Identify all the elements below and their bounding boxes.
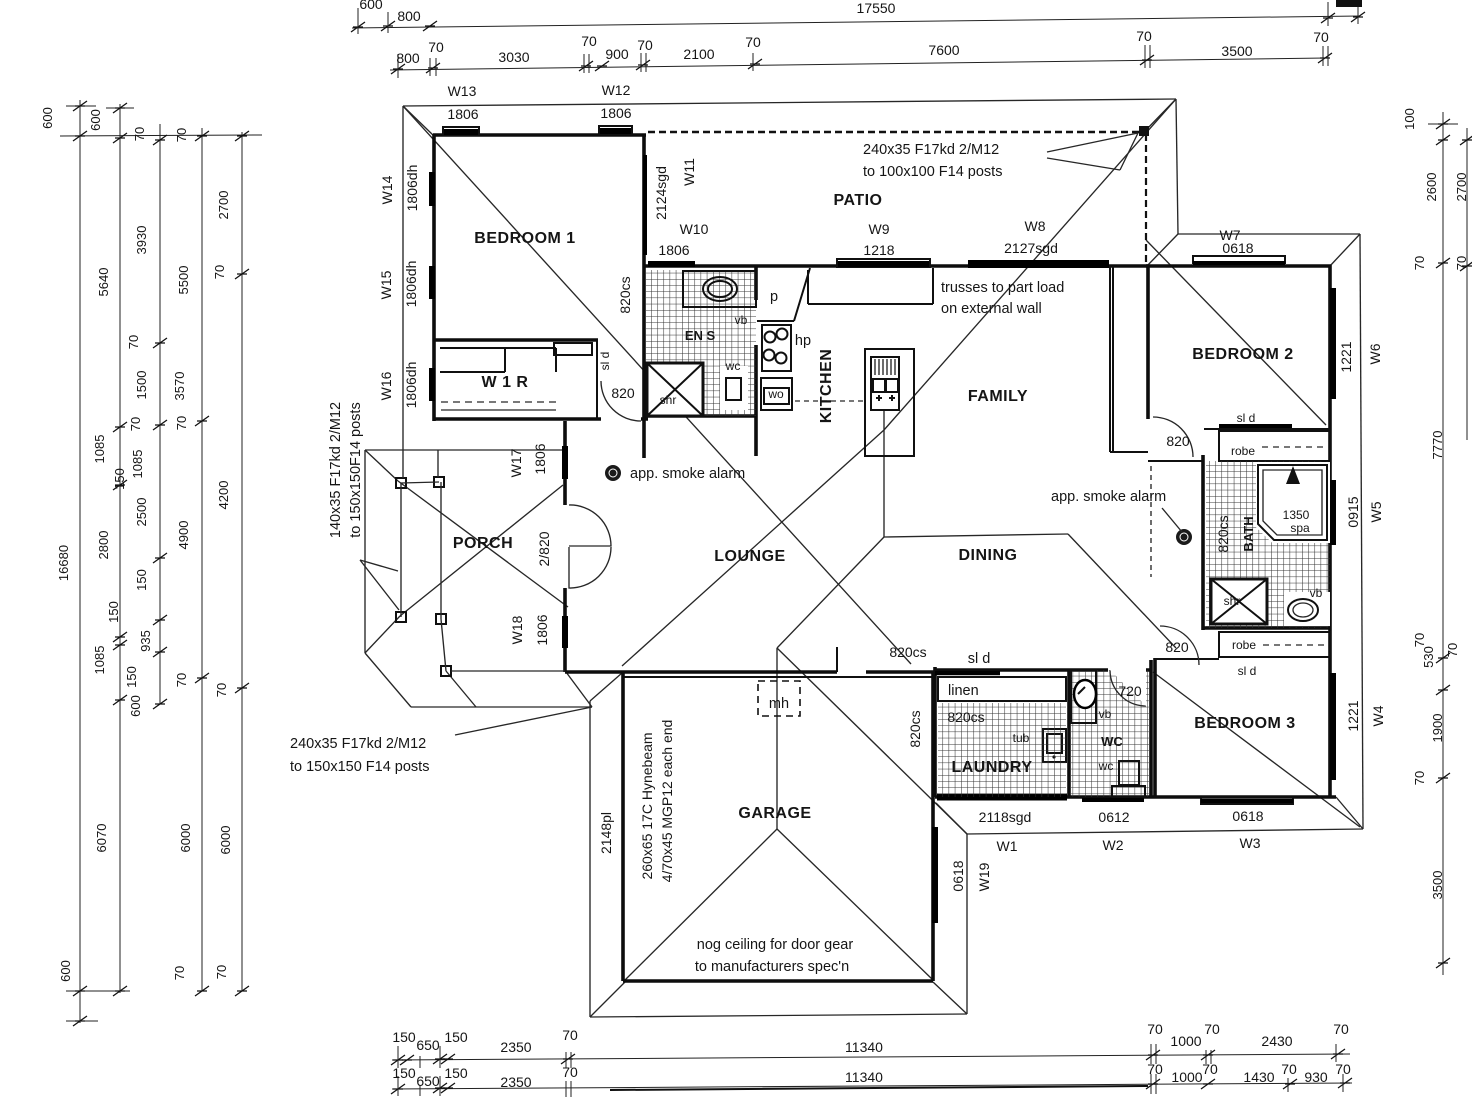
svg-text:on external wall: on external wall [941,301,1042,317]
svg-text:70: 70 [1147,1021,1163,1037]
svg-text:16680: 16680 [56,545,71,581]
wall W1R bottom / hall top [434,417,648,421]
wall W1R east with cavity slider [596,340,598,419]
eave porch bottom [411,706,592,708]
svg-text:70: 70 [1412,633,1427,647]
wall wing east [1328,265,1332,797]
porch slab edges [401,450,565,671]
svg-text:0915: 0915 [1345,496,1361,527]
svg-text:PORCH: PORCH [453,535,513,552]
svg-text:EN S: EN S [685,328,716,343]
garage hip left [625,829,777,980]
window W3 [1201,797,1293,804]
hip NW corner [403,106,434,136]
svg-text:70: 70 [1281,1061,1297,1077]
bath tiled floor [1206,461,1330,628]
svg-text:3500: 3500 [1221,43,1252,59]
svg-text:LAUNDRY: LAUNDRY [951,759,1032,776]
svg-text:1806dh: 1806dh [403,261,419,308]
svg-text:6000: 6000 [178,824,193,853]
hip SE corner of wing [1336,797,1363,829]
kitchen hotplate unit [762,325,791,371]
wall bath south [1203,626,1330,630]
window W7 [1193,256,1285,263]
wall house west (bedroom1+W1R) [432,134,436,421]
svg-text:2500: 2500 [134,498,149,527]
window W2 [1082,798,1144,802]
svg-text:vb: vb [735,313,748,327]
svg-text:260x65 17C Hynebeam: 260x65 17C Hynebeam [639,732,655,879]
svg-text:BEDROOM 2: BEDROOM 2 [1192,346,1293,363]
svg-text:FAMILY: FAMILY [968,388,1028,405]
svg-text:6000: 6000 [218,826,233,855]
svg-text:0612: 0612 [1098,809,1129,825]
dim line 17550 overall top [352,16,1360,28]
svg-text:70: 70 [174,128,189,142]
wall bath west [1201,455,1205,630]
bath spa triangle marker [1286,466,1300,484]
svg-text:sl d: sl d [968,651,991,667]
svg-text:trusses to part load: trusses to part load [941,280,1064,296]
laundry tub [1043,729,1066,762]
svg-text:600: 600 [359,0,383,12]
svg-text:1806: 1806 [658,242,689,258]
ensuite wc [720,366,748,410]
svg-text:150: 150 [444,1065,468,1081]
svg-text:W2: W2 [1103,837,1124,853]
svg-text:app. smoke alarm: app. smoke alarm [1051,489,1166,505]
svg-text:935: 935 [138,630,153,652]
svg-text:W4: W4 [1370,705,1386,726]
porch eave inner corner [446,671,476,707]
svg-text:6070: 6070 [94,824,109,853]
svg-text:0618: 0618 [1232,808,1263,824]
wall lounge west with door opening [563,421,567,672]
svg-text:70: 70 [214,683,229,697]
wall bedroom1 top [433,133,646,137]
left chain D 70/5500/70/4900/70/6000/70 [201,128,203,991]
wall bedroom3 north stub [1155,658,1219,660]
svg-text:3500: 3500 [1430,871,1445,900]
svg-text:5640: 5640 [96,268,111,297]
wall bedroom2 north [1146,264,1331,268]
svg-text:1218: 1218 [863,242,894,258]
svg-text:70: 70 [214,965,229,979]
wall wc east [1149,660,1153,797]
window W16 [429,368,435,401]
svg-text:70: 70 [174,673,189,687]
door bedroom2 arc [1153,417,1193,457]
wall stub left of 820cs opening [836,647,838,672]
svg-text:70: 70 [132,127,147,141]
svg-text:70: 70 [1445,643,1460,657]
svg-text:hp: hp [795,333,811,349]
svg-text:140x35 F17kd 2/M12: 140x35 F17kd 2/M12 [328,402,344,538]
svg-text:3930: 3930 [134,226,149,255]
svg-text:1221: 1221 [1338,341,1354,372]
svg-text:5500: 5500 [176,266,191,295]
svg-text:1085: 1085 [92,435,107,464]
smoke alarm lounge [605,465,621,481]
svg-text:1806: 1806 [447,106,478,122]
svg-text:150: 150 [444,1029,468,1045]
svg-text:70: 70 [745,34,761,50]
roof ridge vertical at island [883,409,885,537]
svg-text:BEDROOM 1: BEDROOM 1 [474,230,575,247]
hall dashed line below bedroom2 door [1150,466,1152,577]
left chain C 70/3930/70/1500/70/2500/150/935/150/600 [159,124,161,704]
svg-text:70: 70 [1313,29,1329,45]
eave NE patio right edge [1176,99,1178,234]
svg-text:tub: tub [1013,731,1030,745]
svg-text:4900: 4900 [176,521,191,550]
svg-text:70: 70 [212,265,227,279]
svg-text:to 150x150F14 posts: to 150x150F14 posts [348,402,364,537]
svg-text:1806dh: 1806dh [404,165,420,212]
hip garage NW corner [590,673,622,701]
kitchen pantry diagonal and shelf [757,268,810,321]
svg-text:11340: 11340 [845,1039,883,1055]
porch posts [396,478,406,488]
garage note leader [455,707,592,735]
svg-text:3570: 3570 [172,372,187,401]
svg-text:1221: 1221 [1345,700,1361,731]
wc tiled floor [1071,670,1149,797]
svg-text:240x35 F17kd 2/M12: 240x35 F17kd 2/M12 [863,142,999,158]
wall bedroom2 door sill [1148,460,1204,462]
sliding door bedroom2 robe [1204,428,1330,430]
svg-text:LOUNGE: LOUNGE [714,548,785,565]
window W10 [648,261,695,267]
svg-text:70: 70 [1147,1061,1163,1077]
svg-text:70: 70 [1204,1021,1220,1037]
svg-text:150: 150 [134,569,149,591]
wall bedroom3 west [1153,658,1157,797]
roof hip dining right [1068,534,1176,648]
svg-text:app. smoke alarm: app. smoke alarm [630,466,745,482]
W1R robe shelf lines [440,348,556,372]
svg-text:2800: 2800 [96,531,111,560]
robe hall box (bedroom3) [1219,632,1330,657]
svg-text:W13: W13 [448,83,477,99]
svg-text:650: 650 [416,1073,440,1089]
manhole dashed [758,681,800,716]
svg-text:2700: 2700 [216,191,231,220]
right chain 2 (clipped at page edge) 2700 [1466,128,1468,440]
svg-text:WC: WC [1101,734,1123,749]
svg-text:vb: vb [1310,586,1323,600]
svg-text:820: 820 [1165,639,1189,655]
eave top of right wing [1178,233,1360,235]
svg-text:W19: W19 [976,862,992,891]
svg-text:70: 70 [1202,1061,1218,1077]
svg-text:7600: 7600 [928,42,959,58]
svg-text:sl d: sl d [1237,411,1256,425]
svg-text:800: 800 [397,8,421,24]
eave below bedrooms wing [967,829,1363,834]
svg-text:150: 150 [112,468,127,490]
roof valley NW long diagonal [403,106,911,664]
wall bedroom2 west [1146,266,1150,419]
wall garage north inner line [622,676,933,678]
bedroom2 hip diagonal [1146,240,1326,425]
svg-text:2350: 2350 [500,1039,531,1055]
svg-text:70: 70 [128,417,143,431]
svg-text:1085: 1085 [92,646,107,675]
svg-text:1430: 1430 [1243,1069,1274,1085]
eave left edge upper [402,106,404,450]
svg-text:1350: 1350 [1283,508,1310,522]
svg-text:GARAGE: GARAGE [738,805,811,822]
patio note leader [1047,133,1138,170]
left chain A 600/16680/600 [60,100,262,1023]
window W18 [562,616,568,648]
svg-text:820cs: 820cs [1215,515,1231,552]
svg-text:shr: shr [1224,594,1241,608]
svg-text:W15: W15 [378,270,394,299]
svg-text:2/820: 2/820 [536,531,552,566]
porch roof diagonal up [400,485,563,616]
eave porch left edge [364,450,366,653]
svg-text:70: 70 [1454,256,1469,270]
svg-text:7770: 7770 [1430,431,1445,460]
bottom dim line 2 [392,1083,1352,1089]
roof hip dining left [777,537,884,648]
svg-text:sl d: sl d [1238,664,1257,678]
svg-text:600: 600 [58,960,73,982]
hip porch SW corner [365,653,411,707]
eave left of garage [589,701,591,1017]
svg-text:to 100x100 F14 posts: to 100x100 F14 posts [863,164,1002,180]
wall garage south [623,979,933,983]
garage ridge vertical [776,648,778,829]
svg-text:2700: 2700 [1454,173,1469,202]
window W19 [932,827,938,923]
svg-text:wc: wc [1098,759,1114,773]
wc cistern [1112,786,1145,797]
svg-text:70: 70 [581,33,597,49]
svg-text:70: 70 [562,1064,578,1080]
hip right wing NW corner [1146,234,1178,267]
svg-text:70: 70 [428,39,444,55]
bottom dim line 1 [392,1054,1350,1060]
door lounge double 2/820 [569,505,611,546]
svg-text:3030: 3030 [498,49,529,65]
wc toilet pan [1119,761,1139,785]
wall family east recess west side [1110,266,1113,452]
svg-text:70: 70 [1412,771,1427,785]
patio post NE black [1139,126,1149,136]
door bedroom3 hall arc [1160,626,1199,665]
linen cupboard [938,677,1066,701]
svg-text:70: 70 [562,1027,578,1043]
svg-text:820cs: 820cs [889,644,926,660]
svg-text:2148pl: 2148pl [598,812,614,854]
wall recess bottom [1110,451,1148,453]
patio floor edge dashed top [648,131,1143,133]
smoke alarm dining [1176,529,1192,545]
svg-text:900: 900 [605,46,629,62]
svg-text:530: 530 [1421,646,1436,668]
window W14 [429,172,435,206]
sliding door panel laundry [935,671,1000,676]
svg-text:820: 820 [611,385,635,401]
window W9 [837,259,930,267]
svg-text:wo: wo [767,387,784,401]
svg-text:1000: 1000 [1170,1033,1201,1049]
ensuite basin [703,277,737,301]
laundry tiled floor [938,703,1066,797]
svg-text:1500: 1500 [134,371,149,400]
svg-text:930: 930 [1304,1069,1328,1085]
kitchen bench front edge [808,268,933,304]
svg-text:W5: W5 [1368,501,1384,522]
svg-text:0618: 0618 [950,860,966,891]
svg-text:70: 70 [1136,28,1152,44]
svg-text:2430: 2430 [1261,1033,1292,1049]
roof ridge horizontal dining [884,534,1068,537]
wall laundry west [933,667,937,797]
svg-text:W12: W12 [602,82,631,98]
svg-text:mh: mh [769,696,789,712]
left chain E 2700/70/4200/70/6000/70 [241,132,243,991]
svg-text:BATH: BATH [1241,516,1256,551]
svg-text:W14: W14 [379,175,395,204]
hip NE corner to patio post [1145,99,1176,131]
eave porch top [365,449,563,451]
svg-text:robe: robe [1231,444,1255,458]
window W17 [562,446,568,479]
svg-text:150: 150 [392,1065,416,1081]
svg-text:2600: 2600 [1424,173,1439,202]
eave right of garage [966,834,968,1014]
window W12 [599,126,632,134]
porch hip SW [365,616,400,653]
wall garage west [621,672,625,981]
hip right wing NE corner [1329,234,1360,267]
svg-text:spa: spa [1290,521,1310,535]
svg-text:2100: 2100 [683,46,714,62]
porch roof diagonal to wall [398,481,568,607]
wall bedroom1 / W1R divider [434,338,598,342]
kitchen wall oven [761,378,792,410]
svg-text:2124sgd: 2124sgd [653,166,669,220]
right chain 100/2600/70/7770/70 530 70/1900/70/3500 [1428,112,1458,975]
svg-text:W18: W18 [509,615,525,644]
wall hall north (laundry/wc) with door gaps [935,668,1151,672]
bath vanity basin [1284,592,1330,626]
svg-text:W10: W10 [680,221,709,237]
svg-text:1900: 1900 [1430,714,1445,743]
wc vanity [1071,670,1096,723]
svg-text:820cs: 820cs [947,709,984,725]
eave right edge of wing [1360,234,1363,829]
svg-text:W11: W11 [681,158,697,186]
svg-text:100: 100 [1402,108,1417,130]
wall wing south [935,795,1336,799]
porch hip NW [365,450,398,481]
top right corner ink blob [1336,0,1362,7]
svg-text:150: 150 [106,601,121,623]
svg-text:1806: 1806 [532,443,548,474]
eave top edge [403,99,1176,106]
wall ensuite east [754,266,758,456]
window W5 [1330,480,1336,545]
ensuite vanity white area [683,271,756,307]
svg-text:2118sgd: 2118sgd [979,809,1032,825]
svg-text:vb: vb [1099,707,1112,721]
window W6 [1330,288,1336,399]
svg-text:70: 70 [126,335,141,349]
svg-text:2127sgd: 2127sgd [1004,240,1058,256]
svg-text:1806: 1806 [534,614,550,645]
eave bottom of garage [590,1014,967,1017]
wall main north (patio edge, kitchen/family) [644,264,1148,268]
kitchen dashed bench centre line [795,400,865,402]
svg-text:600: 600 [40,107,55,129]
window W1 sgd [937,794,1067,801]
wall lounge/dining south with 820cs gap [565,670,935,674]
svg-text:W16: W16 [378,371,394,400]
svg-text:4200: 4200 [216,481,231,510]
svg-text:2350: 2350 [500,1074,531,1090]
svg-text:to manufacturers spec'n: to manufacturers spec'n [695,959,849,975]
porch note leader arrows [360,560,399,610]
svg-text:650: 650 [416,1037,440,1053]
svg-text:shr: shr [660,393,677,407]
smoke alarm leader [1162,508,1182,532]
hip eave corner left of W1 [936,803,967,834]
svg-text:800: 800 [396,50,420,66]
hip garage SW corner [590,982,625,1017]
window W13 [443,127,479,135]
svg-text:17550: 17550 [857,0,896,16]
svg-text:70: 70 [637,37,653,53]
svg-text:150: 150 [392,1029,416,1045]
svg-text:70: 70 [1333,1021,1349,1037]
bath shower [1211,579,1267,624]
ensuite tiled floor [646,270,756,416]
svg-text:W8: W8 [1025,218,1046,234]
svg-text:600: 600 [128,695,143,717]
svg-text:robe: robe [1232,638,1256,652]
wall bedroom1 east / ensuite west [642,135,646,421]
svg-text:70: 70 [1335,1061,1351,1077]
svg-text:BEDROOM 3: BEDROOM 3 [1194,715,1295,732]
window W15 [429,266,435,299]
svg-text:PATIO: PATIO [833,192,882,209]
svg-text:70: 70 [174,416,189,430]
svg-text:600: 600 [88,109,103,131]
left chain B 600/5640/1085/150/2800/150/1085/6070 [106,104,134,993]
svg-text:1085: 1085 [130,450,145,479]
hip garage SE corner [933,982,967,1014]
roof valley NE diagonal through family [884,99,1176,430]
svg-text:70: 70 [172,966,187,980]
wall ensuite south [645,414,757,418]
kitchen island bench [865,349,914,456]
garage hip right [777,829,933,980]
window W8 [968,260,1109,268]
dim line 2: 800/70/3030/70/900/70/2100/70/7600/70/3500/70 [390,58,1326,70]
roof hip lounge diagonal [622,430,884,666]
svg-text:820cs: 820cs [617,276,633,313]
window W4 [1330,673,1336,780]
svg-text:W9: W9 [869,221,890,237]
svg-text:1806: 1806 [600,105,631,121]
svg-text:240x35 F17kd 2/M12: 240x35 F17kd 2/M12 [290,736,426,752]
svg-text:820: 820 [1166,433,1190,449]
